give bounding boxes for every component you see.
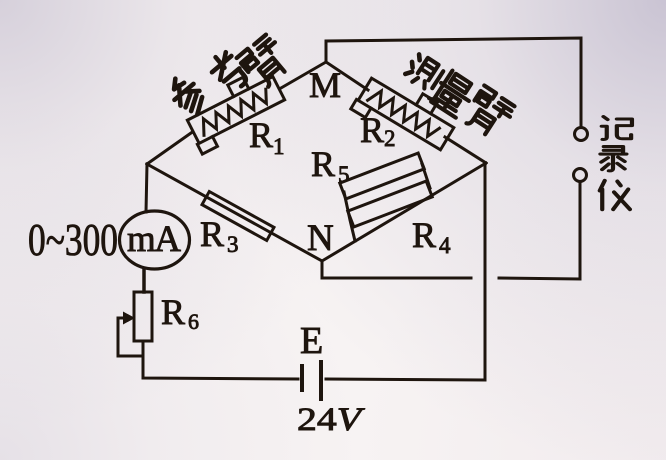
- svg-text:mA: mA: [127, 219, 181, 260]
- 测: [401, 50, 453, 101]
- svg-text:0~300: 0~300: [28, 214, 118, 265]
- label 参考臂 (reference arm), hand-drawn glyphs: [164, 33, 294, 120]
- strain gauge R2 (measuring arm): [351, 66, 461, 159]
- wire: ammeter to R6: [142, 269, 146, 292]
- wire: top rail from M to recorder branch: [326, 38, 581, 127]
- wire stubs joining R4/R5 ends to the bridge arm: [344, 164, 430, 241]
- rheostat R6 wiper arm and short: [118, 318, 141, 356]
- resistor R5 body: [340, 153, 425, 199]
- svg-text:E: E: [300, 320, 323, 362]
- resistor R3 body: [202, 192, 274, 241]
- strain gauge R1 (reference arm): [180, 65, 290, 154]
- wire: bottom rail right of battery up to right vertex: [326, 163, 485, 380]
- wire: bridge arm M to right vertex (through R2): [326, 62, 486, 163]
- 仪: [600, 181, 630, 210]
- wire: left vertex down to ammeter: [146, 164, 147, 212]
- wire: R6 down to bottom rail: [143, 341, 298, 379]
- wire: bridge arm M to left vertex (through R1): [147, 62, 326, 164]
- wire: N to right vertex: [322, 163, 486, 261]
- recorder terminal upper: [575, 128, 588, 141]
- svg-text:24V: 24V: [297, 402, 366, 438]
- recorder terminal lower: [574, 169, 587, 182]
- battery E plates: [300, 366, 304, 390]
- 臂: [462, 86, 517, 142]
- svg-text:N: N: [307, 218, 334, 259]
- 记: [602, 117, 632, 140]
- resistor R4 body: [348, 181, 433, 227]
- 臂: [237, 33, 294, 91]
- ammeter circle: [120, 211, 190, 269]
- 录: [600, 147, 626, 171]
- 考: [206, 49, 250, 95]
- 量: [430, 70, 478, 119]
- wire: left vertex to N (through R3): [147, 164, 322, 261]
- 参: [164, 72, 210, 120]
- svg-text:M: M: [309, 65, 341, 105]
- rheostat R6 body: [134, 292, 152, 341]
- label 记录仪 (recorder), hand-drawn glyphs: [600, 117, 632, 210]
- rheostat R6 arrow head: [123, 312, 135, 325]
- wire: N drop and run to recorder lower terminal (break at crossing): [322, 182, 580, 279]
- label 测量臂 (measuring arm), hand-drawn glyphs: [401, 50, 517, 142]
